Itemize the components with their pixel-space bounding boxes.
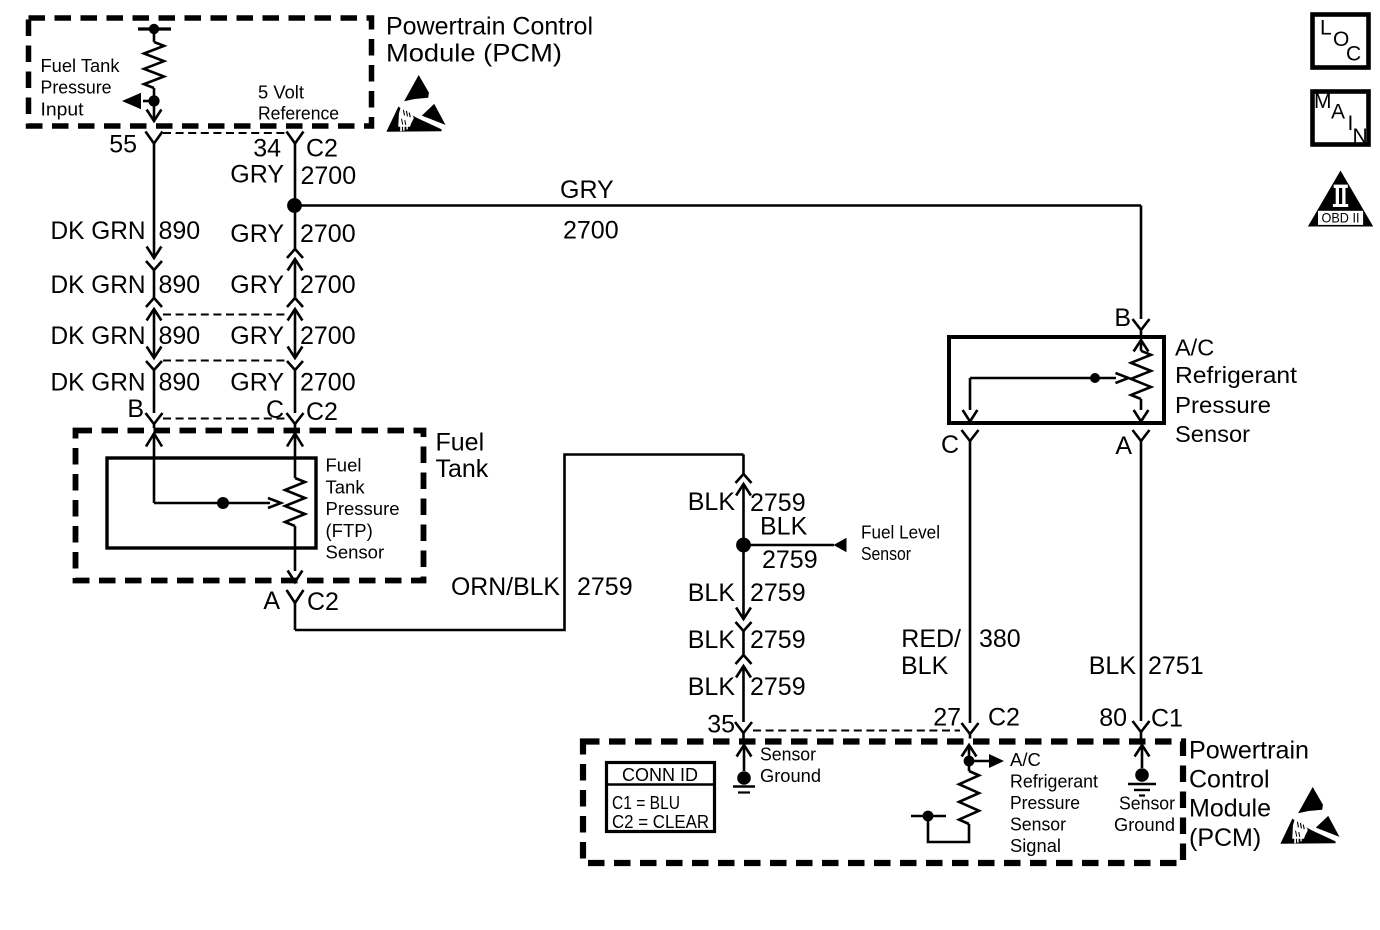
svg-text:80: 80	[1099, 704, 1127, 732]
svg-text:GRY: GRY	[230, 161, 284, 189]
svg-text:55: 55	[109, 131, 137, 159]
wire: GRY 2700 horizontal to A/C sensor	[295, 204, 1142, 207]
svg-text:380: 380	[979, 625, 1021, 653]
junction dot: A/C signal node	[964, 756, 975, 767]
wire: pull-up resistor to internal rail	[928, 816, 969, 842]
svg-text:2700: 2700	[300, 220, 356, 248]
wire: A/C sensor element bottom arrow	[1140, 399, 1143, 410]
svg-text:Tank: Tank	[436, 455, 489, 483]
svg-text:890: 890	[159, 271, 201, 299]
svg-text:5 Volt: 5 Volt	[258, 82, 304, 103]
pin B fork (FTP sensor)	[146, 413, 163, 424]
wire: branch to fuel level sensor	[744, 544, 835, 547]
svg-text:2700: 2700	[301, 162, 357, 190]
in-line connector C2 level (GRY row2-row3)	[287, 298, 303, 307]
module: Powertrain Control Module (PCM) top dashed box	[29, 18, 372, 126]
connector mating dashed line pins B-C	[163, 418, 286, 420]
pin 55 fork (female terminal)	[146, 132, 163, 144]
svg-text:BLK: BLK	[688, 488, 736, 516]
svg-text:DK GRN: DK GRN	[51, 271, 146, 299]
symbol: LOC box	[1313, 15, 1369, 68]
svg-text:Pressure: Pressure	[41, 77, 112, 98]
pin 80 fork	[1133, 721, 1150, 732]
svg-text:890: 890	[159, 322, 201, 350]
in-line connector (DK GRN row3-row4)	[147, 347, 162, 359]
svg-text:C: C	[941, 431, 959, 459]
wire: pin 35 sensor ground arrow	[737, 745, 752, 757]
A/C wiper arrowhead	[1116, 373, 1129, 383]
FTP sensor inner box	[107, 458, 316, 548]
resistor: A/C pressure sensor element	[1131, 351, 1151, 399]
module: Powertrain Control Module (PCM) bottom dashed box	[583, 742, 1183, 864]
svg-text:GRY: GRY	[230, 271, 284, 299]
svg-text:Control: Control	[1189, 766, 1270, 794]
svg-text:Module: Module	[1189, 795, 1271, 823]
pin A fork (A/C sensor)	[1133, 430, 1150, 441]
ground symbol lines (pin 80)	[1128, 783, 1156, 786]
svg-text:2759: 2759	[762, 546, 818, 574]
svg-text:2700: 2700	[300, 271, 356, 299]
svg-text:C2: C2	[988, 704, 1020, 732]
svg-text:DK GRN: DK GRN	[51, 369, 146, 397]
ground symbol lines (pin 35)	[733, 785, 755, 787]
resistor: Fuel Tank Pressure (FTP) Sensor element	[285, 478, 305, 526]
svg-text:DK GRN: DK GRN	[51, 322, 146, 350]
svg-text:890: 890	[159, 217, 201, 245]
wire: internal rail stub	[911, 815, 946, 818]
pin B fork (A/C sensor)	[1133, 319, 1150, 330]
ground: sensor ground dot (pin 35)	[737, 771, 751, 785]
svg-text:Reference: Reference	[258, 103, 339, 124]
svg-text:Tank: Tank	[326, 476, 366, 497]
svg-text:DK GRN: DK GRN	[51, 217, 146, 245]
wire: FTP sensor to pin A with arrow	[294, 526, 297, 571]
wire: A/C sensor element top arrow	[1134, 340, 1149, 352]
svg-text:CONN ID: CONN ID	[622, 764, 698, 785]
in-line connector C2 level (DK GRN row2-row3)	[146, 298, 162, 307]
ESD sensitivity symbol (bottom PCM)	[1280, 787, 1339, 844]
svg-text:Fuel Tank: Fuel Tank	[41, 55, 121, 76]
wire: pin 80 sensor ground arrow	[1135, 745, 1150, 757]
FTP wiper arrowhead	[268, 498, 281, 508]
svg-text:Sensor: Sensor	[326, 542, 385, 563]
svg-text:Ground: Ground	[1114, 814, 1175, 835]
svg-text:Sensor: Sensor	[861, 543, 911, 564]
svg-text:OBD II: OBD II	[1322, 209, 1360, 225]
ground: sensor ground dot (pin 80)	[1135, 768, 1149, 782]
svg-text:A/C: A/C	[1175, 335, 1214, 361]
svg-text:890: 890	[159, 369, 201, 397]
svg-text:Powertrain: Powertrain	[1189, 737, 1309, 765]
svg-text:Pressure: Pressure	[1175, 392, 1271, 418]
svg-text:GRY: GRY	[230, 322, 284, 350]
svg-text:A/C: A/C	[1010, 749, 1041, 770]
svg-text:ORN/BLK: ORN/BLK	[451, 573, 560, 601]
svg-text:C1: C1	[1151, 705, 1183, 733]
wire: GRY to pin B of A/C sensor	[1140, 206, 1143, 320]
svg-text:A: A	[1331, 101, 1345, 124]
resistor: Fuel Tank Pressure Input (PCM internal)	[138, 27, 171, 30]
svg-text:(FTP): (FTP)	[326, 520, 373, 541]
junction dot on FTP wiper	[217, 497, 229, 509]
svg-text:2700: 2700	[300, 369, 356, 397]
svg-text:Input: Input	[41, 98, 84, 119]
svg-text:C2 = CLEAR: C2 = CLEAR	[612, 811, 709, 832]
wire: pin 55 exit from PCM with arrow	[153, 101, 156, 120]
svg-text:C2: C2	[306, 398, 338, 426]
svg-text:A: A	[263, 587, 280, 615]
svg-text:C2: C2	[307, 588, 339, 616]
svg-text:Powertrain Control: Powertrain Control	[386, 13, 593, 41]
in-line connector (BLK lower)	[736, 655, 752, 664]
svg-text:L: L	[1320, 17, 1332, 40]
pin C fork (A/C sensor)	[962, 430, 979, 441]
svg-text:Sensor: Sensor	[1175, 421, 1250, 447]
svg-text:GRY: GRY	[230, 369, 284, 397]
svg-text:Sensor: Sensor	[760, 744, 816, 765]
svg-text:Module (PCM): Module (PCM)	[386, 40, 562, 68]
junction dot on A/C wiper	[1090, 373, 1100, 383]
wire: FTP wiper	[154, 502, 270, 505]
svg-text:Refrigerant: Refrigerant	[1175, 362, 1297, 388]
symbol: MAIN box	[1313, 92, 1369, 145]
svg-text:Pressure: Pressure	[1010, 792, 1080, 813]
junction dot on input rail	[149, 24, 159, 34]
pin C fork (FTP sensor)	[287, 413, 304, 424]
svg-text:2751: 2751	[1148, 652, 1204, 680]
wire: branch to signal arrow	[969, 760, 989, 763]
component: A/C Refrigerant Pressure Sensor box	[949, 337, 1164, 423]
svg-text:BLK: BLK	[760, 513, 808, 541]
pin 34 fork (female terminal)	[287, 132, 304, 144]
table: CONN ID box	[607, 763, 715, 832]
pin 27 fork	[962, 723, 979, 734]
svg-text:C1 = BLU: C1 = BLU	[612, 792, 680, 813]
svg-text:2700: 2700	[563, 217, 619, 245]
svg-text:B: B	[1114, 304, 1131, 332]
svg-text:34: 34	[253, 135, 281, 163]
in-line connector (BLK top)	[742, 455, 745, 475]
wire: ORN/BLK 2759 route	[295, 455, 744, 631]
svg-text:Fuel Level: Fuel Level	[861, 522, 940, 543]
off-page arrow to Fuel Level Sensor	[834, 538, 847, 553]
svg-text:(PCM): (PCM)	[1189, 824, 1261, 852]
in-line connector (DK GRN row1-row2)	[147, 247, 162, 259]
svg-text:2759: 2759	[750, 673, 806, 701]
svg-text:RED/: RED/	[901, 625, 961, 653]
wire: B into FTP sensor (arrow up)	[146, 434, 162, 447]
svg-text:C2: C2	[306, 135, 338, 163]
wire: A/C sensor C leg	[969, 378, 972, 410]
junction: 5V reference node	[287, 198, 302, 213]
svg-text:BLK: BLK	[688, 626, 736, 654]
svg-text:Refrigerant: Refrigerant	[1010, 771, 1098, 792]
connector mating dashed line pins 55-34	[163, 132, 286, 134]
pin A fork (FTP sensor)	[287, 590, 304, 603]
connector mating dashed line (C2 inline upper)	[163, 314, 286, 316]
svg-text:2700: 2700	[300, 322, 356, 350]
svg-text:A: A	[1115, 432, 1132, 460]
svg-text:C: C	[266, 396, 284, 424]
svg-text:Sensor: Sensor	[1119, 793, 1175, 814]
junction: fuel level sensor tap	[736, 538, 751, 553]
svg-text:BLK: BLK	[901, 652, 949, 680]
pin 35 fork	[735, 722, 752, 733]
svg-text:Signal: Signal	[1010, 835, 1061, 856]
svg-text:Ground: Ground	[760, 765, 821, 786]
connector mating dashed line pins 35-27	[753, 730, 960, 732]
svg-text:C: C	[1346, 43, 1361, 66]
svg-text:2759: 2759	[577, 573, 633, 601]
svg-text:Pressure: Pressure	[326, 498, 400, 519]
resistor: PCM pull-up (A/C signal)	[968, 761, 971, 771]
wire: pin 27 signal arrow	[962, 745, 977, 757]
arrow: A/C signal (right)	[989, 754, 1004, 768]
wire: C into FTP sensor (arrow up)	[287, 434, 303, 447]
svg-text:2759: 2759	[750, 626, 806, 654]
svg-text:Fuel: Fuel	[326, 455, 362, 476]
connector mating dashed line (inline lower)	[163, 360, 286, 362]
svg-text:B: B	[127, 395, 144, 423]
symbol: OBD II triangle	[1308, 171, 1373, 227]
svg-text:BLK: BLK	[688, 673, 736, 701]
svg-text:GRY: GRY	[560, 176, 614, 204]
ESD sensitivity symbol (top PCM)	[386, 75, 445, 132]
wire: A/C sensor wiper	[970, 377, 1116, 380]
svg-text:2759: 2759	[750, 579, 806, 607]
svg-text:Sensor: Sensor	[1010, 814, 1066, 835]
in-line connector (BLK mid)	[742, 545, 745, 619]
svg-text:M: M	[1314, 90, 1332, 113]
junction dot at FTP input node	[148, 95, 159, 106]
svg-text:27: 27	[933, 704, 961, 732]
svg-text:Fuel: Fuel	[436, 429, 485, 457]
svg-text:GRY: GRY	[230, 220, 284, 248]
svg-text:35: 35	[707, 711, 735, 739]
component: Fuel Tank dashed box	[76, 431, 424, 581]
svg-text:BLK: BLK	[688, 579, 736, 607]
in-line connector (GRY row1-row2)	[294, 205, 297, 249]
junction dot: internal rail	[923, 811, 934, 822]
wiper arrow pointing left (FTP input)	[143, 100, 154, 103]
svg-text:N: N	[1353, 125, 1368, 148]
in-line connector (GRY row3-row4)	[288, 347, 303, 359]
svg-text:BLK: BLK	[1089, 652, 1137, 680]
